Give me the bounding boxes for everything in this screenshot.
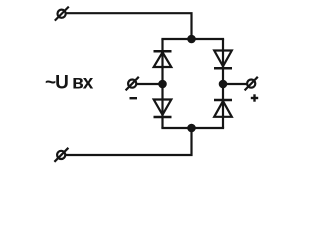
- wire from bottom node to X2: [66, 128, 192, 155]
- node: top junction: [188, 36, 194, 42]
- terminal X4 (DC output plus): [245, 77, 258, 91]
- label: plus sign at plus output: [251, 94, 258, 101]
- node: left (minus) junction: [159, 81, 165, 87]
- node: bottom junction: [188, 125, 194, 131]
- terminal X1 (AC input, top-left): [55, 7, 69, 21]
- node: right (plus) junction: [220, 81, 226, 87]
- svg-text:~U вх: ~U вх: [45, 73, 94, 94]
- diode VD4 (bottom-right, anode down, cathode up): [214, 100, 232, 117]
- wire from X1 to top node: [66, 13, 191, 39]
- bridge right rail wire: [222, 39, 224, 128]
- bridge left rail wire: [161, 39, 163, 128]
- diode VD1 (top-left, anode down, cathode up): [154, 51, 172, 67]
- diode VD2 (bottom-left, anode up, cathode down): [154, 100, 172, 118]
- wire from right node to plus terminal: [223, 83, 247, 85]
- bridge top rail wire: [161, 38, 224, 40]
- bridge bottom rail wire: [161, 127, 224, 129]
- wire from minus terminal to left node: [137, 83, 163, 85]
- label: minus sign at minus output: [130, 97, 138, 99]
- terminal X3 (DC output minus): [126, 77, 139, 91]
- terminal X2 (AC input, bottom-left): [54, 148, 68, 162]
- diode VD3 (top-right, anode up, cathode down): [214, 51, 232, 69]
